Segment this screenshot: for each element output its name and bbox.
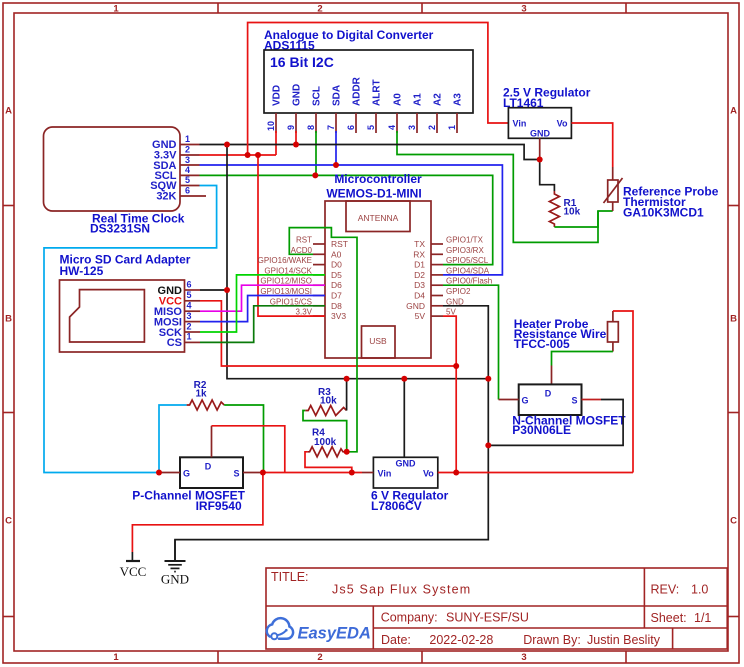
wire ADC GND to GND rail [295,131,297,145]
EasyEDA logo [267,618,371,642]
MCU left outside labels [258,236,313,317]
wire G stub [159,472,180,474]
svg-text:L7806CV: L7806CV [371,499,422,513]
svg-text:D4: D4 [414,291,425,301]
svg-text:C: C [730,516,737,527]
svg-text:SDA: SDA [332,85,343,106]
svg-text:10: 10 [266,121,276,131]
SD card glyph [70,290,145,342]
SD pin stubs [185,290,201,342]
LT1461 SECTION [503,86,613,181]
wire heater top to 6V [612,311,614,322]
svg-text:Microcontroller: Microcontroller [334,172,422,186]
VCC symbol [120,552,147,579]
svg-text:Vo: Vo [557,119,568,129]
svg-text:Vin: Vin [513,119,527,129]
wire SD GND [200,289,227,291]
svg-text:10k: 10k [320,396,337,407]
wire heater bottom to N-MOSFET D [612,342,614,352]
junction MCU GND riser / S loop [485,442,491,448]
junction R4 / divider green [344,449,350,455]
svg-text:Sheet:: Sheet: [651,611,687,625]
svg-text:P30N06LE: P30N06LE [512,423,571,437]
svg-text:HW-125: HW-125 [60,264,104,278]
regulator U5 body [508,108,571,139]
wire R3 top to GND rail [346,379,348,411]
wire SQW cyan net [44,186,217,473]
wire R2 left cyan [159,405,187,473]
RTC pin stubs [180,145,206,197]
svg-text:16 Bit I2C: 16 Bit I2C [270,54,334,70]
svg-text:DS3231SN: DS3231SN [90,222,150,236]
svg-text:WEMOS-D1-MINI: WEMOS-D1-MINI [326,187,421,201]
svg-text:2: 2 [185,145,190,155]
svg-text:G: G [522,396,529,406]
wire ADC SDA down [335,131,337,165]
wire G stub [499,399,519,401]
resistor R1 10k [549,191,598,227]
svg-text:ANTENNA: ANTENNA [358,213,399,223]
MCU left pin stubs [313,244,325,316]
svg-text:GPIO3/RX: GPIO3/RX [446,246,484,255]
ADC pin numbers [266,121,457,131]
wire MCU Flash to N-MOSFET G [443,285,499,399]
junction GND rail / ADC pin 9 [293,142,299,148]
svg-text:GND: GND [406,301,425,311]
MCU U1 body [325,201,431,358]
svg-text:GND: GND [396,459,417,469]
svg-text:A2: A2 [433,93,444,106]
junction P-MOSFET gate / SQW / R2 [156,470,162,476]
svg-text:1: 1 [447,125,457,130]
svg-text:7: 7 [326,125,336,130]
RTC U3 body [44,127,181,211]
wire LT1461 Vo to thermistor [571,123,612,167]
svg-text:IRF9540: IRF9540 [196,499,242,513]
svg-text:B: B [5,314,12,325]
svg-text:2022-02-28: 2022-02-28 [429,633,493,647]
resistor R4 100k [305,428,352,473]
svg-text:D1: D1 [414,260,425,270]
svg-text:GND: GND [292,84,303,106]
svg-text:A: A [730,106,737,117]
MCU right pin stubs [431,244,443,316]
svg-text:2: 2 [427,125,437,130]
svg-text:USB: USB [369,336,387,346]
wire SDA rail [200,165,503,275]
svg-text:1k: 1k [195,389,207,400]
svg-text:TITLE:: TITLE: [271,570,309,584]
junction Vin rail / R4 [349,470,355,476]
wire 3.3V rail [200,154,277,156]
svg-text:GND: GND [161,572,189,587]
wire MCU 5V red [443,316,456,472]
wire R1 bottom green [554,211,598,227]
wire 6V GND riser [403,379,405,458]
wire LT1461 GND stub [539,138,541,159]
wire 3.3V riser to MCU 3V3 [258,155,325,316]
wire S to VCC [132,473,263,553]
svg-text:D5: D5 [331,270,342,280]
svg-text:A: A [5,106,12,117]
P-channel MOSFET Q1 [132,426,284,552]
svg-text:6: 6 [187,280,192,290]
svg-text:9: 9 [286,125,296,130]
svg-text:A1: A1 [413,93,424,106]
svg-text:GPIO5/SCL: GPIO5/SCL [446,256,489,265]
SD pin numbers [187,280,192,342]
svg-text:3: 3 [407,125,417,130]
svg-text:3: 3 [521,4,526,15]
wire SD CS to MCU D8 [200,306,325,343]
wire 3.3V to MCU 3V3 overlay [310,315,325,317]
svg-text:D6: D6 [331,280,342,290]
svg-text:ADDR: ADDR [352,76,363,106]
junction P-MOSFET source / R2 / VCC [260,470,266,476]
svg-text:6: 6 [346,125,356,130]
wire R3 left green to R4 [303,411,347,452]
svg-text:D7: D7 [331,291,342,301]
svg-text:A0: A0 [331,249,342,259]
junction SDA rail / ADC pin 7 [333,162,339,168]
svg-text:3: 3 [185,155,190,165]
svg-text:Justin Beslity: Justin Beslity [587,633,661,647]
svg-text:D2: D2 [414,270,425,280]
junction GND rail / 6V reg GND [401,376,407,382]
svg-text:Company:: Company: [381,611,438,625]
ADC pin stubs [276,113,457,133]
svg-text:TFCC-005: TFCC-005 [514,337,570,351]
svg-text:1: 1 [113,652,119,663]
N-channel MOSFET Q2 [488,384,626,445]
ADC pin labels [272,76,464,106]
svg-text:S: S [233,468,239,478]
svg-text:10k: 10k [564,207,581,218]
junction GND rail / R3 [344,376,350,382]
wire SD SCK to MCU D5 [200,275,325,332]
svg-text:SUNY-ESF/SU: SUNY-ESF/SU [446,611,529,625]
svg-text:D3: D3 [414,280,425,290]
usb box [362,326,396,358]
svg-text:A0: A0 [393,93,404,106]
svg-text:1: 1 [185,134,190,144]
wire SD VCC to 6V rail [200,301,456,366]
svg-text:2: 2 [317,4,322,15]
svg-text:100k: 100k [314,437,337,448]
svg-text:4: 4 [387,125,397,130]
svg-text:S: S [571,396,577,406]
junction Vo rail / 5V riser [453,470,459,476]
svg-text:GND: GND [530,129,551,139]
svg-text:VDD: VDD [272,85,283,106]
SD SECTION [60,253,457,367]
TITLEBLOCK [266,568,727,649]
svg-text:1/1: 1/1 [694,611,711,625]
svg-text:RST: RST [296,236,312,245]
MCU left inside labels [331,239,348,321]
junction 3.3V rail / MCU 3V3 riser [255,152,261,158]
wire GND rail to LT1461 [200,145,555,192]
RTC pin labels [150,139,177,203]
junction GND rail / MCU GND riser [485,376,491,382]
svg-text:2: 2 [187,321,192,331]
wire Vin stub [362,472,373,474]
svg-text:5: 5 [366,125,376,130]
SD pin labels [154,285,183,349]
svg-text:5V: 5V [415,311,426,321]
wire S stub [243,472,263,474]
svg-text:3V3: 3V3 [331,311,346,321]
resistor R2 1k [159,380,264,473]
wire Vo rail red to heater riser [438,472,633,474]
svg-text:SCL: SCL [312,86,323,106]
junction SCL rail / ADC pin 8 [312,172,318,178]
svg-text:A3: A3 [453,93,464,106]
svg-text:GA10K3MCD1: GA10K3MCD1 [623,206,704,220]
antenna box [346,201,410,232]
svg-text:GPIO4/SDA: GPIO4/SDA [446,266,490,275]
svg-text:6: 6 [185,186,190,196]
MCU right outside labels [446,236,492,317]
svg-text:1: 1 [113,4,119,15]
wire 3.3V top riser to LT1461 Vin [248,23,509,156]
svg-text:1.0: 1.0 [691,583,708,597]
svg-text:RST: RST [331,239,348,249]
svg-text:D8: D8 [331,301,342,311]
wire ADC A0 net to divider [397,131,613,242]
svg-text:Vo: Vo [423,468,434,478]
MCU right inside labels [406,239,425,321]
svg-text:Vin: Vin [378,468,392,478]
svg-text:32K: 32K [156,191,176,203]
svg-text:TX: TX [414,239,425,249]
svg-text:D: D [545,389,552,399]
wire SD MISO to MCU D6 [200,285,325,311]
svg-text:8: 8 [306,125,316,130]
RTC pin numbers [185,134,190,196]
svg-text:RX: RX [413,249,425,259]
junction SD GND / black riser [224,287,230,293]
NETS from RTC [44,23,554,473]
svg-text:3: 3 [187,311,192,321]
RTC SECTION [44,127,207,236]
junction 3.3V rail / top riser [245,152,251,158]
svg-text:G: G [183,468,190,478]
ADC SECTION [264,28,613,242]
svg-text:CS: CS [167,337,182,349]
svg-text:4: 4 [187,301,192,311]
wire A0 green loop to R4 [289,228,357,452]
svg-text:VCC: VCC [120,564,147,579]
svg-text:GPIO16/WAKE: GPIO16/WAKE [258,256,312,265]
svg-text:D: D [205,461,212,471]
wire ADC SCL down [315,131,317,175]
svg-text:5: 5 [185,175,190,185]
heater probe resistor [514,311,633,473]
svg-text:3: 3 [521,652,526,663]
svg-text:D0: D0 [331,260,342,270]
svg-text:GPIO2: GPIO2 [446,287,471,296]
wire black GND riser left [227,145,488,379]
wire SCL rail [200,175,493,264]
wire D loop to S rail [211,426,213,458]
thermistor RT1 [604,178,719,220]
svg-text:GPIO1/TX: GPIO1/TX [446,236,484,245]
ADC U2 body [264,50,473,113]
resistor R3 10k [303,379,347,452]
svg-text:C: C [5,516,12,527]
junction GND rail / black riser [224,142,230,148]
wire ADC VDD to 3.3V rail [275,131,277,155]
svg-text:Js5 Sap Flux System: Js5 Sap Flux System [332,583,471,597]
junction 6V rail / 5V riser [453,363,459,369]
svg-text:EasyEDA: EasyEDA [298,625,371,643]
svg-text:2: 2 [317,652,322,663]
svg-text:Drawn By:: Drawn By: [523,633,581,647]
SD U4 body [60,280,185,352]
svg-text:Date:: Date: [381,633,411,647]
svg-text:5: 5 [187,290,192,300]
junction LT1461 GND / R1 [537,157,543,163]
svg-text:B: B [730,314,737,325]
wire S to GND loop [582,399,602,401]
GND symbol [161,540,189,587]
MCU SECTION [175,172,499,560]
wire Vin rail red [263,472,362,474]
svg-text:REV:: REV: [651,583,680,597]
wire R4 left to Vin rail [305,452,352,473]
svg-text:1: 1 [187,332,192,342]
wire MCU GND black [175,306,488,560]
svg-text:ALRT: ALRT [372,79,383,106]
wire R2 right green to S [224,405,263,473]
svg-text:4: 4 [185,165,190,175]
6V regulator L7806CV [263,379,633,513]
wire SD MOSI to MCU D7 [200,296,325,322]
